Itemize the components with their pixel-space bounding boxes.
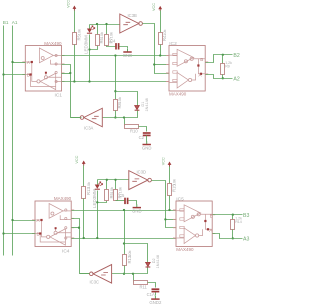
wire B3 to R14 <box>232 215 234 220</box>
svg-text:GND: GND <box>142 145 152 150</box>
junction LED2 column jog <box>96 201 98 203</box>
wire rail to R6 <box>97 25 99 35</box>
IC1 internal driver/receiver symbols <box>25 48 61 90</box>
wire branch to IC2 RE <box>155 64 170 66</box>
wire net N1 down to R8 <box>115 56 117 100</box>
svg-text:IC4: IC4 <box>62 248 70 254</box>
pin stub IC2 p1 <box>166 55 169 57</box>
pin DE stub of IC1 <box>62 72 65 74</box>
wire R13 to net N3b <box>124 266 126 274</box>
junction N3b/R11 <box>132 273 134 275</box>
transceiver IC2 MAX490 box <box>169 46 205 92</box>
LED D3 LED3MM indicator <box>87 26 95 34</box>
resistor R5 pull-up <box>73 33 77 45</box>
junction R13/net N3b <box>123 273 125 275</box>
wire R11 to C1 <box>148 283 156 288</box>
wire B1 to IC4 pin B <box>4 233 36 235</box>
wire IC1 DE stub join <box>62 73 71 75</box>
wire rail-b to IC3D input <box>98 179 129 181</box>
wire net B1 vertical bus <box>3 26 5 256</box>
IC4 internal driver/receiver symbols <box>35 204 71 246</box>
junction LED2/net N2b <box>96 237 98 239</box>
svg-text:A2: A2 <box>233 77 239 83</box>
pin stub IC2 p2 <box>166 64 169 66</box>
svg-text:C4: C4 <box>110 39 116 44</box>
wire net A1 vertical bus <box>12 26 14 256</box>
wire N3b down to R11 <box>133 274 135 283</box>
pin stub IC5 p4 <box>173 237 176 239</box>
svg-text:10k: 10k <box>86 182 91 188</box>
svg-text:B: B <box>27 73 30 78</box>
junction R15/net N1b <box>168 209 170 211</box>
svg-text:R10: R10 <box>130 129 138 134</box>
resistor R7 <box>105 35 109 46</box>
junction rail/R7 <box>105 23 107 25</box>
wire R7 to C4 <box>107 46 116 47</box>
wire R12 to net N2b <box>83 199 85 239</box>
capacitor C4 <box>116 43 119 49</box>
svg-text:B: B <box>37 232 40 237</box>
wire net N1b IC4 to IC5 <box>72 210 177 212</box>
svg-text:IC3A: IC3A <box>84 125 94 130</box>
pin A stub of IC2 <box>205 73 208 75</box>
svg-text:A: A <box>37 218 41 223</box>
wire R4 to net N1 <box>160 45 162 56</box>
junction R13/D2 jog <box>123 242 125 244</box>
schmitt inverter IC3B <box>120 13 143 33</box>
junction rail-b/R7b <box>114 179 116 181</box>
ground symbol GND near C4 <box>123 49 133 58</box>
junction RE/DE tie of IC4 <box>78 227 80 229</box>
pin A stub of IC4 <box>32 219 35 221</box>
resistor R9 termination <box>221 64 225 75</box>
svg-text:R11: R11 <box>140 285 148 290</box>
svg-text:IC1: IC1 <box>55 93 63 99</box>
svg-text:10k: 10k <box>99 32 104 38</box>
svg-text:B1: B1 <box>3 20 9 25</box>
wire VCC to R12 <box>83 166 85 187</box>
junction RE/DE tie of IC5 <box>164 218 166 220</box>
pin RE stub of IC1 <box>62 63 65 65</box>
wire LED2 cathode to net N2b <box>97 191 99 239</box>
svg-text:VCC: VCC <box>75 155 79 163</box>
resistor R10 <box>125 125 139 129</box>
junction A1/IC1-A <box>11 61 13 63</box>
svg-text:MAX490: MAX490 <box>176 247 194 252</box>
junction N3/R10 <box>123 116 125 118</box>
pin stub IC5 p3 <box>173 227 176 229</box>
schmitt inverter IC3A <box>80 108 102 130</box>
svg-text:B: B <box>210 213 213 218</box>
resistor R12 pull-up <box>82 187 86 199</box>
resistor R15 pull-up <box>168 184 172 196</box>
svg-text:1N4148: 1N4148 <box>156 255 160 268</box>
svg-text:IC5: IC5 <box>176 196 184 202</box>
power VCC symbol above R12 <box>75 155 85 165</box>
wire branch to IC5 RE <box>166 219 177 221</box>
junction LED column/R6 jog <box>88 48 90 50</box>
wire R9 to net A2 <box>222 75 224 79</box>
junction B2/R9 <box>222 54 224 56</box>
junction B1/IC1-B <box>2 73 4 75</box>
wire R10 to C2 <box>139 127 147 132</box>
wire rail to IC3B input <box>90 24 120 26</box>
svg-text:10k: 10k <box>117 97 122 103</box>
svg-text:IC3C: IC3C <box>90 280 100 285</box>
svg-text:VCC: VCC <box>66 0 70 8</box>
svg-text:10k: 10k <box>162 29 167 35</box>
svg-text:C1A: C1A <box>147 292 155 297</box>
wire net N2b IC4 to IC5 <box>72 238 177 240</box>
ground symbol GND2 near C1 <box>149 296 162 305</box>
wire IC3A output to RE/DE column <box>71 117 81 119</box>
svg-text:VCC: VCC <box>162 157 166 165</box>
wire IC5 A to net A3 <box>213 234 243 239</box>
svg-text:LED3MM: LED3MM <box>83 35 88 54</box>
svg-text:B2: B2 <box>233 53 239 59</box>
pin stub IC4 p1 <box>71 209 74 211</box>
diode D2 1N4148 <box>146 262 151 267</box>
wire net N2 IC1-DI to IC2 <box>62 81 170 83</box>
wire A1 to IC4 pin A <box>13 220 36 222</box>
svg-text:10k: 10k <box>109 187 114 193</box>
junction rail-b/R6b <box>106 179 108 181</box>
capacitor C1A <box>152 289 160 291</box>
svg-text:10k: 10k <box>127 250 132 256</box>
ground symbol GND near C5 <box>132 204 142 213</box>
junction B1/IC4-B <box>2 232 4 234</box>
wire R6b bottom jog to LED2 column <box>98 201 107 203</box>
power VCC symbol above R15 <box>162 157 172 166</box>
IC5 internal driver/receiver symbols <box>176 205 212 244</box>
pin DI stub of IC1 <box>62 81 65 83</box>
svg-text:GND: GND <box>132 209 142 214</box>
wire rail to LED1 anode <box>89 25 91 29</box>
wire jog to D2 anode <box>125 244 148 263</box>
schmitt inverter IC3D <box>129 170 152 190</box>
svg-text:IC3B: IC3B <box>128 13 138 18</box>
resistor R11 <box>134 281 148 285</box>
pin stub IC5 p1 <box>173 209 176 211</box>
svg-text:C2: C2 <box>139 135 145 140</box>
transceiver IC5 MAX490 box <box>176 201 212 247</box>
resistor R8 <box>114 100 118 111</box>
wire N3 down to R10 <box>124 118 126 127</box>
junction R4/net N1 <box>159 54 161 56</box>
wire R14 to net A3 <box>232 230 234 239</box>
svg-text:B3: B3 <box>243 213 249 219</box>
junction rail/R6 <box>96 23 98 25</box>
svg-text:GND: GND <box>123 53 133 58</box>
pin RO stub of IC1 <box>62 55 65 57</box>
svg-text:C5: C5 <box>119 193 125 198</box>
wire C5 to GND <box>129 201 137 205</box>
resistor R14 termination <box>231 220 235 230</box>
wire A1 to IC1 pin A <box>13 62 26 64</box>
wire rail-b to R7b <box>115 180 117 190</box>
capacitor C2 <box>143 133 151 135</box>
svg-text:IC3D: IC3D <box>137 170 147 175</box>
wire IC5 B to net B3 <box>213 214 243 216</box>
svg-text:MAX490: MAX490 <box>169 91 187 96</box>
pin A stub of IC5 <box>212 233 215 235</box>
wire VCC to R4 <box>160 11 162 33</box>
wire IC4 DE stub join <box>72 227 80 229</box>
pin B stub of IC2 <box>205 61 208 63</box>
wire C2 to GND <box>146 136 148 142</box>
pin stub IC2 p4 <box>166 81 169 83</box>
junction R12/net N2b <box>83 237 85 239</box>
resistor R13 <box>123 255 127 266</box>
wire IC2 B to net B2 <box>206 55 233 63</box>
junction A2/R9 <box>222 77 224 79</box>
resistor R7b <box>114 190 118 201</box>
capacitor C5 <box>125 198 128 204</box>
wire B1 to IC1 pin B <box>4 74 26 76</box>
svg-text:VCC: VCC <box>152 3 156 11</box>
wire jog to D1 anode <box>116 92 138 106</box>
svg-text:10k: 10k <box>109 32 114 38</box>
junction A3/R14 <box>232 237 234 239</box>
resistor R4 pull-up <box>159 33 163 45</box>
svg-text:R14: R14 <box>235 220 242 224</box>
pin stub IC5 p2 <box>173 218 176 220</box>
wire LED1 cathode down to net N2 <box>89 35 91 82</box>
wire rail-b to LED2 anode <box>97 180 99 185</box>
ground symbol GND near C2 <box>142 141 152 150</box>
junction RE/DE tie of IC2 <box>153 63 155 65</box>
junction N1b/R13 <box>123 209 125 211</box>
svg-text:1N4148: 1N4148 <box>145 98 149 111</box>
wire IC3C output join <box>80 273 90 275</box>
wire VCC to R15 <box>169 167 171 184</box>
schmitt inverter IC3C <box>90 265 112 285</box>
svg-text:MAX490: MAX490 <box>44 41 62 46</box>
wire net N1b down to R13 <box>124 211 126 255</box>
svg-text:MAX490: MAX490 <box>54 196 72 201</box>
svg-text:IC2: IC2 <box>169 41 177 47</box>
wire net N3 D1 cathode to IC3A input <box>103 111 138 118</box>
junction R5/net N2 <box>73 80 75 82</box>
svg-text:A: A <box>27 60 31 65</box>
wire IC3D output to IC5 DE <box>152 181 177 228</box>
pin A stub of IC1 <box>22 61 25 63</box>
wire R6 bottom jog to LED column <box>90 46 98 50</box>
svg-text:A1: A1 <box>12 20 18 25</box>
wire IC1 RE/DE to IC3A output <box>62 65 82 118</box>
wire IC4 RE/DE to IC3C output <box>72 219 90 274</box>
svg-text:LED3MM: LED3MM <box>92 189 97 208</box>
svg-text:10k: 10k <box>77 29 82 35</box>
wire R15 to net N1b <box>169 196 171 211</box>
junction LED1/net N2 <box>88 80 90 82</box>
LED D4 LED3MM indicator <box>95 182 103 190</box>
svg-text:B: B <box>200 57 203 62</box>
wire R7b to C5 <box>116 200 125 202</box>
wire VCC to R5 <box>74 11 76 33</box>
wire net N1 IC1-RO to IC2 <box>62 55 170 57</box>
pin B stub of IC5 <box>212 214 215 216</box>
svg-text:A3: A3 <box>243 237 249 243</box>
pin stub IC2 p3 <box>166 72 169 74</box>
junction B3/R14 <box>232 214 234 216</box>
wire C4 to GND <box>120 47 128 49</box>
wire C1 to GND2 <box>155 293 157 296</box>
diode D1 1N4148 <box>135 106 140 111</box>
junction RE/DE tie of IC1 <box>69 72 71 74</box>
pin B stub of IC4 <box>32 233 35 235</box>
svg-text:R9: R9 <box>225 65 230 69</box>
transceiver IC4 MAX490 box <box>35 201 71 247</box>
wire rail-b to R6b <box>106 180 108 190</box>
resistor R6b <box>105 190 109 201</box>
IC2 internal driver/receiver symbols <box>169 49 205 88</box>
wire rail to R7 <box>106 25 108 35</box>
power VCC symbol above R5 <box>66 0 76 11</box>
junction R8/D1 jog <box>114 90 116 92</box>
power VCC symbol above R4 <box>152 3 162 11</box>
svg-text:GND2: GND2 <box>149 300 162 305</box>
svg-text:10k: 10k <box>172 179 177 185</box>
pin B stub of IC1 <box>22 74 25 76</box>
wire R8 to net N3 <box>115 111 117 118</box>
junction R8/net N3 <box>114 116 116 118</box>
pin stub IC4 p3 <box>71 227 74 229</box>
wire R5 to net N2 <box>74 45 76 82</box>
wire B2 to R9 <box>222 55 224 64</box>
pin stub IC4 p4 <box>71 237 74 239</box>
junction N1/R8 <box>114 54 116 56</box>
pin stub IC4 p2 <box>71 217 74 219</box>
wire IC2 A to net A2 <box>206 75 233 79</box>
resistor R6 <box>96 35 100 46</box>
transceiver IC1 MAX490 box <box>25 46 61 92</box>
wire net N3b D2 cathode to IC3C input <box>112 268 148 274</box>
wire IC3B output to IC2 DE <box>143 24 170 74</box>
junction A1/IC4-A <box>11 219 13 221</box>
